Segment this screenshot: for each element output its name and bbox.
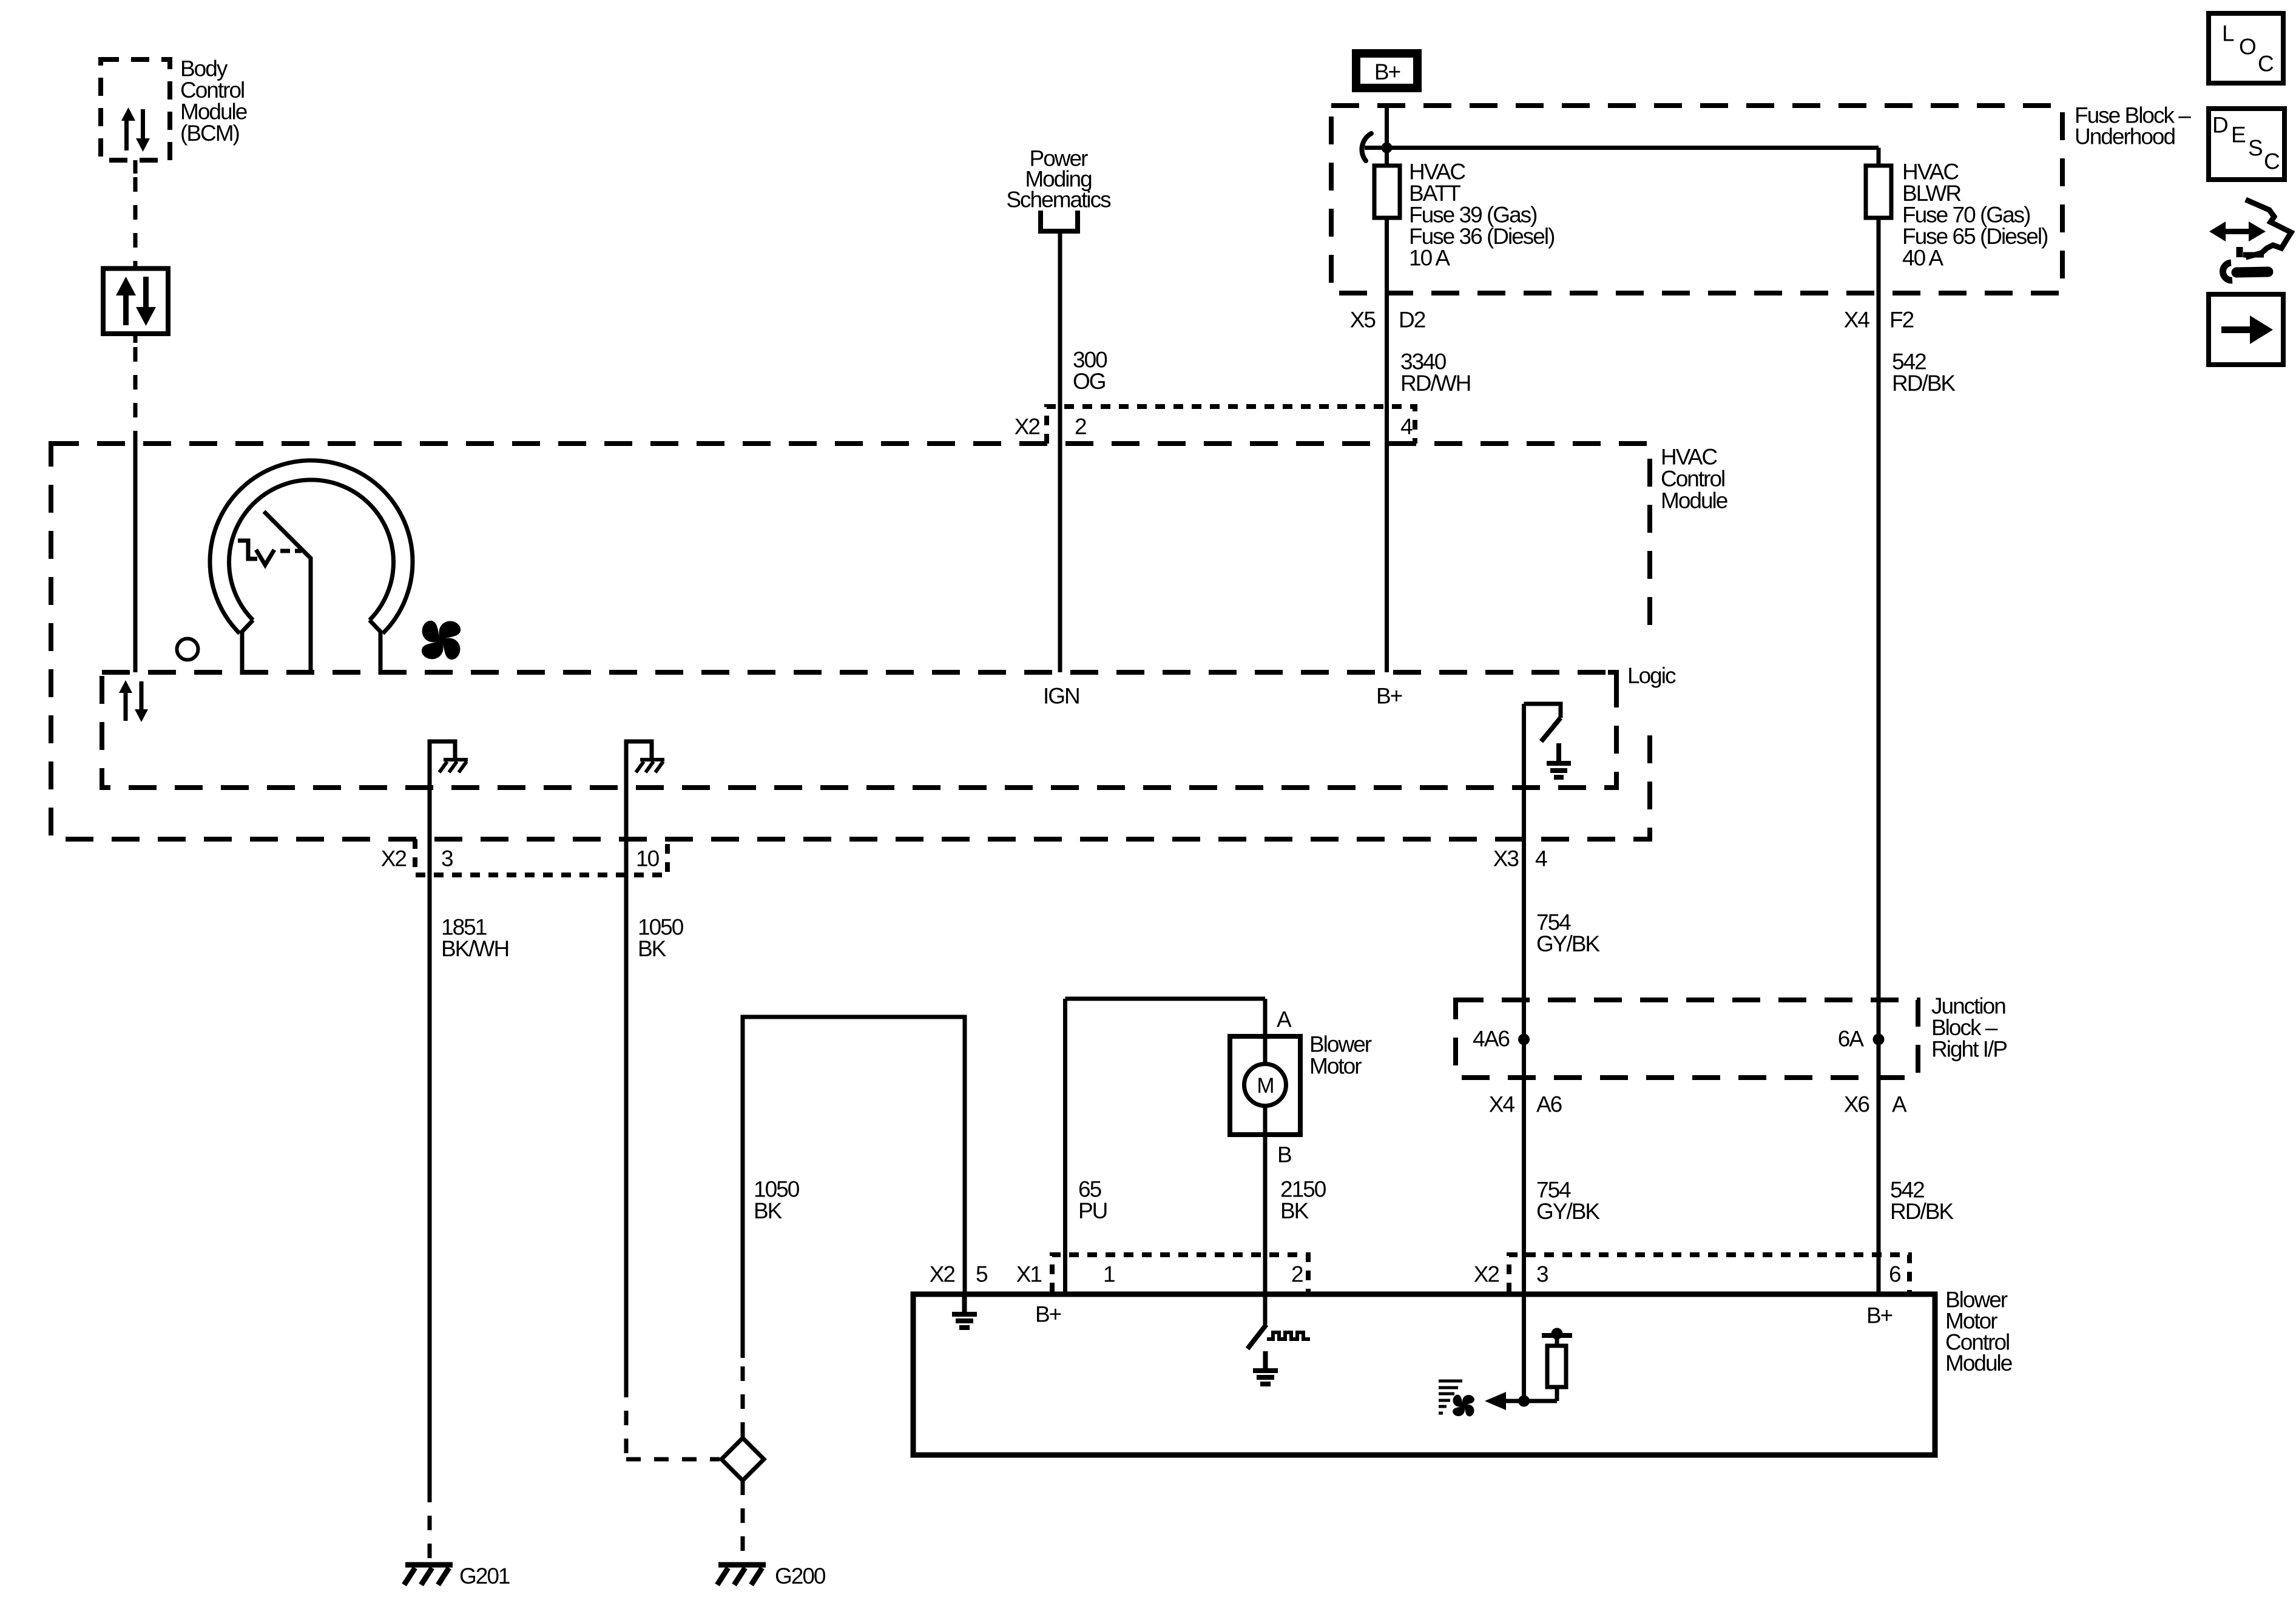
logic serial-data down arrow <box>140 681 144 710</box>
wire: 542 from fuse row <box>1877 148 1881 1295</box>
svg-text:X2: X2 <box>930 1262 955 1287</box>
svg-text:C: C <box>2264 149 2280 174</box>
switch stub pin 2 <box>1263 1294 1268 1325</box>
module box: HVAC Control Module, dashed <box>51 444 1650 839</box>
fan icon (speed control) <box>1446 1388 1481 1423</box>
junction dot <box>1382 143 1393 154</box>
junction dot 6A <box>1873 1034 1885 1045</box>
logic ground switch hook <box>1524 704 1561 718</box>
svg-text:E: E <box>2231 123 2246 147</box>
connector X2 row (pins 2,4) dotted box <box>1047 407 1415 444</box>
svg-text:4A6: 4A6 <box>1473 1027 1509 1052</box>
blower speed dial: inner arc <box>229 480 394 620</box>
svg-text:D: D <box>2212 113 2227 138</box>
BCM serial-data up arrow <box>124 120 129 150</box>
dial left leg <box>242 620 253 675</box>
svg-text:X3: X3 <box>1493 846 1519 871</box>
svg-text:B+: B+ <box>1376 684 1402 709</box>
wire: BCM stub <box>133 160 138 174</box>
junction dot (754 to fan drive) <box>1518 1396 1530 1407</box>
switch blade <box>1541 718 1561 741</box>
earth ground (logic) <box>1547 743 1571 777</box>
dial dash marks <box>280 549 302 553</box>
module box: Blower Motor Control Module <box>913 1294 1935 1455</box>
svg-text:Right I/P: Right I/P <box>1931 1037 2007 1062</box>
indicator circle <box>177 639 198 660</box>
svg-text:PU: PU <box>1078 1198 1107 1223</box>
wire: dashed serial data down to box <box>133 177 138 268</box>
BCM serial-data down arrow <box>141 109 145 139</box>
wrench <box>2223 263 2232 280</box>
dial wiper <box>264 511 311 675</box>
svg-text:6: 6 <box>1889 1262 1900 1287</box>
svg-text:Module: Module <box>1661 488 1727 513</box>
splice diamond <box>721 1438 764 1480</box>
wire: stub below box <box>133 334 138 343</box>
svg-text:3: 3 <box>441 846 453 871</box>
wire: n-shape to blower module pin 5 <box>743 1017 965 1358</box>
motor circle <box>1244 1064 1286 1106</box>
svg-text:L: L <box>2222 21 2234 46</box>
wire: motor B lead / 2150 BK <box>1263 1106 1268 1294</box>
chassis ground small 2 <box>636 760 664 772</box>
svg-text:X4: X4 <box>1489 1092 1515 1117</box>
module box: Fuse Block Underhood, dashed <box>1331 106 2062 293</box>
svg-text:X6: X6 <box>1844 1092 1869 1117</box>
svg-text:10: 10 <box>636 846 660 871</box>
junction dot 4A6 <box>1518 1034 1530 1045</box>
resistor body <box>1547 1346 1566 1387</box>
wire: 1851 dashed to G201 <box>428 1488 432 1562</box>
DESC box <box>2209 109 2284 180</box>
svg-text:BK/WH: BK/WH <box>441 936 508 961</box>
svg-text:M: M <box>1257 1074 1273 1098</box>
switch blade (PWM) <box>1248 1325 1266 1349</box>
B+ power box <box>1356 53 1417 88</box>
LOC box <box>2209 13 2283 83</box>
box up arrow <box>123 292 129 325</box>
serial data box (solid) <box>103 269 168 334</box>
svg-text:Underhood: Underhood <box>2075 124 2175 149</box>
svg-text:C: C <box>2258 52 2274 76</box>
dial right leg <box>370 620 380 675</box>
wire: solid into logic box <box>133 434 138 672</box>
fuse row horizontal wire <box>1365 146 1879 150</box>
blower motor box <box>1230 1036 1300 1135</box>
svg-text:G200: G200 <box>775 1564 826 1588</box>
arrow to fan <box>1504 1399 1557 1403</box>
svg-text:X4: X4 <box>1844 308 1870 333</box>
fuse HVAC BLWR <box>1866 166 1891 218</box>
Logic dashed box <box>102 672 1616 788</box>
svg-text:BK: BK <box>754 1198 783 1223</box>
ground hook 1 (HVAC internal) <box>430 741 455 1488</box>
svg-text:4: 4 <box>1535 846 1547 871</box>
svg-text:B: B <box>1277 1143 1291 1167</box>
fusible link curl <box>1362 133 1371 161</box>
svg-text:D2: D2 <box>1399 308 1425 333</box>
svg-text:B+: B+ <box>1035 1302 1061 1327</box>
fan icon (HVAC control) <box>410 609 472 671</box>
logic serial-data up arrow <box>124 692 128 721</box>
svg-text:BK: BK <box>1280 1198 1309 1223</box>
speed ramp icon <box>1439 1381 1462 1413</box>
svg-text:2: 2 <box>1291 1262 1303 1287</box>
svg-text:BK: BK <box>638 936 667 961</box>
fuse HVAC BATT <box>1374 166 1400 218</box>
dial step mark <box>238 541 257 559</box>
svg-text:Logic: Logic <box>1627 663 1676 688</box>
dial v mark <box>256 550 274 565</box>
wire: IGN feed down <box>1058 233 1062 672</box>
wire: 65 PU <box>1063 999 1067 1294</box>
svg-text:RD/WH: RD/WH <box>1400 371 1470 396</box>
forward arrow box <box>2209 294 2283 365</box>
svg-text:2: 2 <box>1075 414 1086 439</box>
svg-text:HVAC: HVAC <box>1661 445 1717 470</box>
earth ground (PWM switch) <box>1253 1351 1278 1384</box>
wire: B+ feed <box>1385 106 1389 672</box>
svg-text:OG: OG <box>1073 369 1106 394</box>
svg-text:RD/BK: RD/BK <box>1892 371 1956 396</box>
label: Logic <box>1638 631 1664 727</box>
svg-text:Schematics: Schematics <box>1006 187 1111 212</box>
svg-text:6A: 6A <box>1838 1027 1865 1052</box>
svg-text:A: A <box>1892 1092 1907 1117</box>
svg-text:Motor: Motor <box>1309 1054 1362 1079</box>
blower speed dial: outer arc <box>210 461 413 633</box>
wire: motor A lead <box>1263 999 1268 1065</box>
svg-text:O: O <box>2239 35 2256 59</box>
chassis ground G201 <box>404 1565 453 1585</box>
svg-text:Module: Module <box>1945 1351 2012 1376</box>
wire: splice up dashed <box>741 1358 745 1437</box>
svg-text:RD/BK: RD/BK <box>1890 1199 1954 1224</box>
svg-text:X2: X2 <box>1474 1262 1499 1287</box>
wire: 754 control output <box>1522 704 1526 1401</box>
svg-text:10 A: 10 A <box>1409 246 1450 271</box>
svg-text:Blower: Blower <box>1309 1032 1372 1057</box>
resistor leg <box>1555 1387 1559 1401</box>
svg-text:B+: B+ <box>1866 1303 1893 1328</box>
svg-text:A: A <box>1277 1007 1292 1032</box>
svg-text:5: 5 <box>976 1262 988 1287</box>
wire: 1050 dashed elbow to splice <box>626 1383 720 1459</box>
svg-text:GY/BK: GY/BK <box>1536 931 1600 956</box>
svg-text:Control: Control <box>1661 467 1724 491</box>
blower motor top feed wire <box>1065 997 1266 1001</box>
box down arrow <box>143 277 149 310</box>
earth ground pin 5 <box>952 1294 977 1328</box>
wire: splice down dashed to G200 <box>741 1480 745 1562</box>
svg-text:A6: A6 <box>1536 1092 1562 1117</box>
connector X1 row dotted <box>1052 1255 1308 1292</box>
svg-text:1: 1 <box>1103 1262 1115 1287</box>
module box: Junction Block Right I/P, dashed <box>1456 1000 1918 1078</box>
svg-text:F2: F2 <box>1889 308 1914 333</box>
connector X2 row dotted (right) <box>1509 1255 1909 1292</box>
wire: dashed down to HVAC module <box>133 347 138 434</box>
svg-text:4: 4 <box>1400 414 1413 439</box>
svg-text:B+: B+ <box>1374 59 1400 84</box>
svg-text:40 A: 40 A <box>1902 246 1943 271</box>
svg-text:(BCM): (BCM) <box>180 121 240 146</box>
svg-text:G201: G201 <box>459 1564 510 1588</box>
PWM square wave <box>1267 1332 1310 1339</box>
off-page bracket <box>1041 211 1078 231</box>
chassis ground G200 <box>717 1565 766 1585</box>
hand outline <box>2246 200 2291 257</box>
module box: Body Control Module (BCM), dashed <box>101 59 170 160</box>
hand/adjust icon: double arrow <box>2209 221 2266 241</box>
svg-text:X1: X1 <box>1016 1262 1042 1287</box>
svg-text:X5: X5 <box>1350 308 1376 333</box>
svg-text:GY/BK: GY/BK <box>1536 1199 1600 1224</box>
svg-text:IGN: IGN <box>1043 684 1079 709</box>
svg-text:3: 3 <box>1536 1262 1548 1287</box>
hand thumb bar <box>2243 252 2264 258</box>
svg-text:X2: X2 <box>1015 414 1040 439</box>
svg-text:S: S <box>2248 136 2262 161</box>
ground hook 2 (HVAC internal) <box>626 741 652 1383</box>
connector X2 row (pins 3,10) dotted box <box>415 839 667 875</box>
svg-text:X2: X2 <box>381 846 407 871</box>
chassis ground small 1 <box>439 760 468 772</box>
resistor top leg + rail <box>1555 1335 1559 1346</box>
